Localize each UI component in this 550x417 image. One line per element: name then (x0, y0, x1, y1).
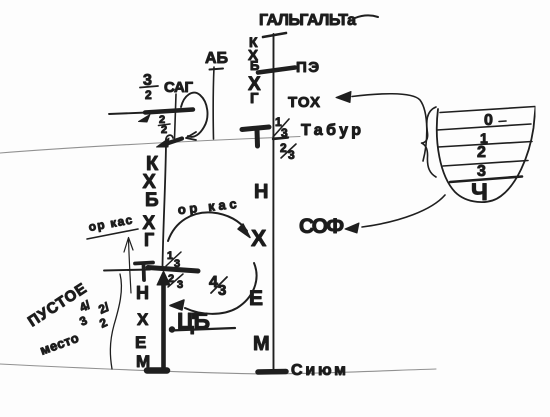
arrowhead of 4/3 arc (170, 300, 184, 310)
label or xac (left, underlined) (87, 213, 133, 234)
thin up arrow to or xac (129, 240, 132, 293)
wire: Galgalta top bar (263, 33, 286, 37)
wavy brace for pustoe mesto (110, 274, 121, 369)
bold vertical arrow line (Tzimtzum Bet line) (161, 283, 166, 370)
wire: main Galgalta vertical line (272, 34, 274, 372)
wire: left column vertical line (163, 144, 167, 267)
arrowhead under SAG bar (139, 115, 151, 123)
underline of or xac (87, 229, 138, 239)
arrow to TOX (352, 94, 427, 161)
curly brace left of table (422, 107, 437, 177)
faint page crease line lower (0, 364, 436, 374)
svg-text:3: 3 (288, 148, 295, 162)
svg-text:3: 3 (218, 282, 226, 299)
svg-text:Х: Х (137, 310, 149, 329)
svg-text:3: 3 (77, 313, 89, 329)
wire: Pe bar (bold) (258, 68, 295, 73)
wire: tick on line at Tabur (273, 138, 288, 140)
svg-text:2: 2 (161, 124, 167, 136)
svg-text:М: М (253, 333, 270, 355)
junction squiggle loop (166, 135, 173, 141)
svg-text:место: место (38, 330, 81, 358)
table U-shape outline (437, 107, 536, 202)
junction bold stroke (164, 139, 182, 145)
loop arrow from SAG bar (181, 93, 207, 137)
dash after 0 (499, 120, 506, 123)
flourish tail of Galgalta (355, 15, 378, 18)
svg-text:ГАЛЬГАЛЬТа: ГАЛЬГАЛЬТа (259, 12, 356, 29)
label or xac (arc) (177, 196, 237, 217)
fraction 4/3 (pustoe) (77, 298, 93, 315)
table line 3 (443, 161, 528, 167)
label PUSTOE (rotated) (25, 280, 90, 330)
svg-text:Н: Н (254, 181, 268, 203)
table line 4 (bold) (450, 177, 522, 183)
bottom blob of bold line (147, 367, 167, 374)
svg-text:3: 3 (177, 279, 183, 291)
svg-text:Н: Н (136, 283, 149, 303)
big arc or xac to X (168, 212, 247, 241)
wire: AB vertical line (212, 67, 215, 139)
svg-text:2: 2 (145, 88, 152, 102)
bold T at nekudot bar (135, 263, 153, 264)
arrowhead of big arc (238, 224, 250, 238)
fraction 2/2 (pustoe) (96, 300, 112, 317)
svg-text:Б: Б (145, 190, 159, 211)
label mesto (rotated) (38, 330, 81, 358)
underline of Tz'B (170, 328, 235, 331)
table top line (440, 107, 535, 113)
wire: nekudot bar thin part (104, 270, 150, 271)
svg-text:4/: 4/ (77, 298, 93, 315)
svg-text:Е: Е (249, 287, 263, 310)
svg-text:ТОХ: ТОХ (288, 94, 320, 111)
svg-text:3: 3 (174, 258, 180, 270)
svg-text:0: 0 (484, 112, 493, 129)
wire: siyum bold tick (258, 369, 286, 375)
svg-text:СОФ: СОФ (299, 215, 344, 238)
svg-text:2: 2 (477, 144, 486, 161)
svg-text:2: 2 (97, 315, 109, 331)
faint page crease line upper (0, 137, 300, 154)
wire: nekudot bar bold part (148, 268, 198, 272)
svg-text:Г: Г (250, 90, 259, 107)
svg-text:Табур: Табур (301, 122, 361, 139)
wire: short vertical from SAG to bar (175, 94, 177, 139)
svg-text:3: 3 (477, 163, 486, 180)
svg-text:ПЭ: ПЭ (296, 59, 319, 76)
svg-text:Сиюм: Сиюм (291, 362, 346, 379)
svg-text:Ч: Ч (471, 179, 488, 206)
table line 2 (438, 142, 532, 148)
wire: AB top tick (210, 69, 224, 70)
arrowhead of SOF arrow (345, 223, 359, 233)
arc 4/3 (185, 263, 257, 314)
junction bold arrowhead (157, 138, 170, 147)
svg-text:М: М (136, 352, 150, 371)
bold arrowhead up (157, 271, 170, 285)
svg-text:2/: 2/ (96, 300, 112, 317)
svg-text:АБ: АБ (205, 50, 228, 67)
svg-text:Е: Е (135, 333, 146, 352)
dot junction on bold line (169, 326, 175, 332)
svg-text:Х: Х (251, 225, 267, 251)
wire: SAG bar bold part (145, 110, 193, 113)
arrow to SOF (362, 195, 445, 227)
arrowhead of TOX arrow (336, 92, 351, 103)
loop arrowhead (open) (186, 132, 196, 140)
svg-text:ор кас: ор кас (177, 196, 237, 217)
Tabur bold T mark (242, 127, 269, 130)
wire: SAG bar thin part (109, 113, 147, 115)
table line 1 (437, 124, 531, 130)
svg-text:Г: Г (144, 230, 154, 250)
svg-text:3: 3 (281, 126, 288, 140)
